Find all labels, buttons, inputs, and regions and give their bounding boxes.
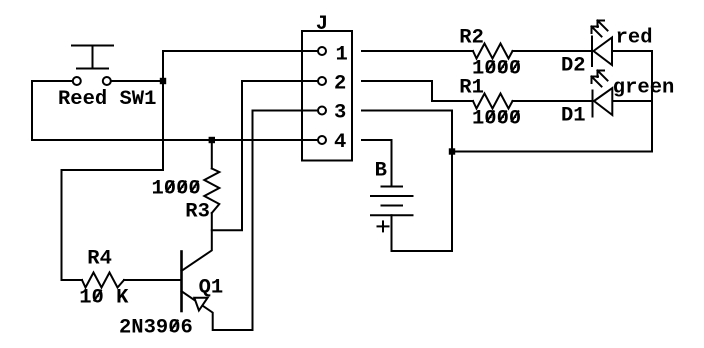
svg-text:green: green (613, 77, 675, 100)
svg-text:1000: 1000 (472, 107, 521, 130)
svg-text:1: 1 (336, 44, 348, 67)
svg-text:4: 4 (334, 131, 346, 154)
svg-text:B: B (375, 160, 387, 183)
svg-text:2N3906: 2N3906 (119, 317, 193, 340)
svg-text:Reed SW1: Reed SW1 (58, 88, 156, 111)
svg-text:D2: D2 (561, 55, 586, 78)
svg-text:Q1: Q1 (199, 277, 224, 300)
svg-text:J: J (316, 13, 328, 36)
svg-text:R4: R4 (87, 248, 112, 271)
svg-text:10 K: 10 K (79, 287, 129, 310)
svg-text:red: red (616, 27, 653, 50)
svg-text:1000: 1000 (152, 178, 201, 201)
svg-text:D1: D1 (561, 105, 586, 128)
svg-text:2: 2 (334, 73, 346, 96)
svg-text:R1: R1 (459, 77, 484, 100)
svg-text:R3: R3 (185, 201, 210, 224)
svg-text:R2: R2 (459, 27, 484, 50)
svg-text:3: 3 (334, 102, 346, 125)
